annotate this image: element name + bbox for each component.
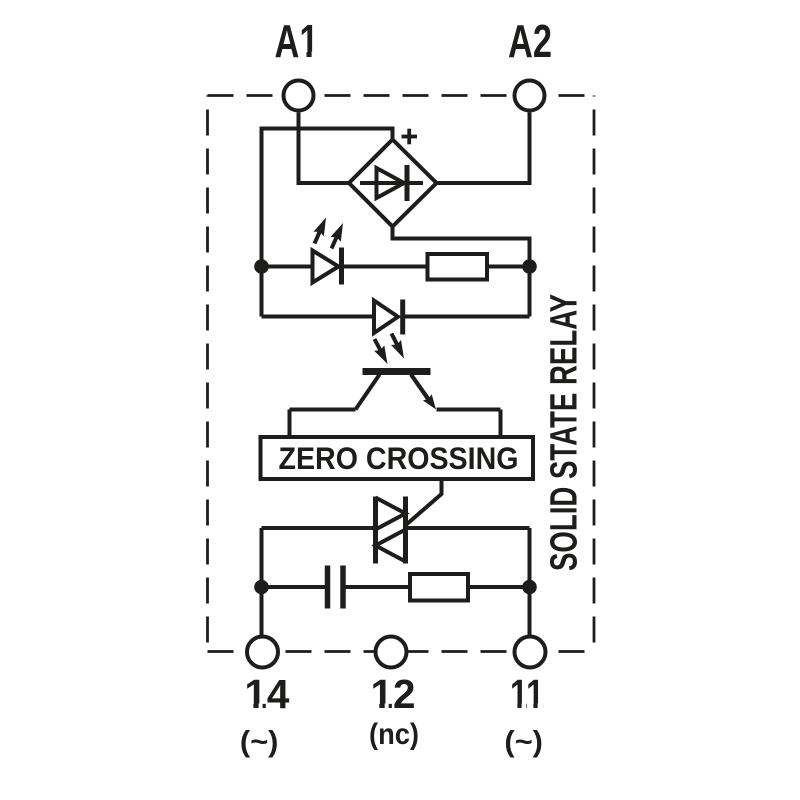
svg-text:A1: A1 [275,15,319,67]
svg-text:A2: A2 [508,15,552,67]
svg-text:(~): (~) [240,726,279,759]
svg-text:(nc): (nc) [369,718,419,751]
svg-text:14: 14 [244,671,289,717]
svg-text:11: 11 [510,671,544,717]
svg-text:ZERO CROSSING: ZERO CROSSING [279,440,519,476]
svg-text:SOLID STATE RELAY: SOLID STATE RELAY [543,294,585,571]
svg-text:12: 12 [371,671,416,717]
svg-text:(~): (~) [504,726,543,759]
